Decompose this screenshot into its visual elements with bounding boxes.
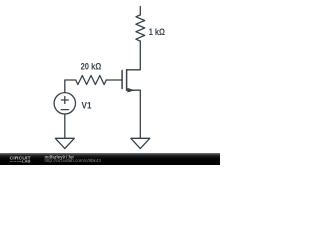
svg-text:∼∼∼▪LAB: ∼∼∼▪LAB — [10, 158, 31, 163]
transistor M1 source lead with arrow — [127, 88, 141, 93]
transistor M1 gate bar — [121, 71, 123, 89]
wire supply stub to R2 top — [139, 7, 141, 15]
resistor R2 1 kOhm — [136, 15, 145, 41]
wire source to ground — [139, 90, 141, 138]
resistor R1 20 kOhm — [76, 76, 107, 85]
ground right — [131, 138, 150, 148]
value label 20 kOhm — [81, 61, 102, 72]
svg-text:1 kΩ: 1 kΩ — [149, 27, 166, 38]
wire R2 bottom to drain corner — [127, 41, 141, 70]
wire gate to R1 — [106, 79, 122, 81]
label V1 — [82, 101, 93, 112]
ground left — [55, 138, 74, 148]
svg-text:V1: V1 — [82, 101, 93, 112]
svg-text:20 kΩ: 20 kΩ — [81, 61, 102, 72]
svg-text:http://circuitlab.com/c/8bk43: http://circuitlab.com/c/8bk43 — [45, 158, 102, 163]
transistor M1 channel bar — [126, 70, 128, 90]
wire R1 left to V1 top — [65, 80, 76, 92]
value label 1 kOhm — [149, 27, 166, 38]
wire V1 bottom to ground — [64, 114, 66, 138]
voltage source V1 — [54, 93, 75, 114]
